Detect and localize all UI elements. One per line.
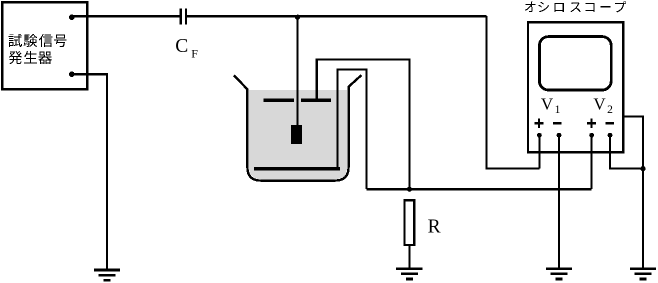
terminal dot V1+ [537, 133, 542, 138]
wire: V1- down to ground [558, 135, 560, 268]
svg-text:1: 1 [555, 104, 561, 116]
ground below generator [94, 270, 120, 280]
svg-text:C: C [175, 36, 188, 57]
ground below resistor [396, 269, 422, 279]
text 試験信号 char 信 [39, 34, 53, 47]
wire: generator bottom output right then down to ground [72, 74, 107, 270]
wire: V2- down and right to case branch [610, 135, 643, 168]
terminal dot V1- [557, 133, 562, 138]
wire: bottom electrode up over beaker rim down to bus [338, 69, 367, 189]
text 発生器 char 器 [38, 52, 52, 65]
ground below right branch [630, 269, 656, 279]
text 発生器 char 生 [24, 51, 37, 64]
text オシロスコープ char オ [525, 2, 536, 13]
text オシロスコープ char ロ [555, 3, 564, 12]
oscilloscope title オシロスコープ [525, 1, 626, 12]
terminal dot: generator output bottom [69, 71, 75, 77]
svg-text:V: V [541, 94, 554, 113]
oscilloscope box [528, 22, 623, 152]
wire: V1+ down to left branch [538, 135, 540, 168]
wire: bus from bottom-electrode branch to V2+ [366, 188, 591, 191]
svg-text:2: 2 [607, 104, 613, 116]
wire: capacitor to oscilloscope branch [187, 15, 487, 17]
wire: top electrode up and over to resistor branch [317, 60, 410, 188]
terminal dot: generator output top [69, 14, 75, 20]
wire: oscilloscope case to right branch down to ground [623, 117, 643, 269]
capacitor CF [180, 8, 188, 24]
text オシロスコープ char ス [570, 3, 580, 13]
inner electrode block [291, 125, 302, 144]
terminal dot V2+ [589, 133, 594, 138]
wire: node A down to inner electrode [297, 16, 299, 128]
bottom electrode plate [254, 167, 340, 171]
signal generator box U1 [2, 2, 87, 89]
svg-text:R: R [428, 216, 441, 237]
text オシロスコープ char シ [539, 2, 550, 12]
minus sign V1- [553, 122, 562, 124]
text 試験信号 char 験 [24, 34, 38, 47]
beaker outline [234, 75, 362, 181]
minus sign V2- [606, 122, 615, 124]
wire: resistor to ground [408, 246, 410, 269]
oscilloscope screen [539, 37, 611, 90]
wire: top wire down the left of oscilloscope to V1+ [487, 16, 540, 168]
svg-text:V: V [593, 94, 606, 113]
beaker liquid (electrolyte) [249, 90, 347, 179]
resistor R [405, 200, 415, 245]
text 試験信号 char 号 [54, 34, 67, 47]
junction node C on right branch [640, 166, 645, 171]
plus sign V2+ [587, 119, 596, 128]
text 発生器 char 発 [9, 51, 23, 64]
junction node B at resistor top [407, 187, 412, 192]
plus sign V1+ [534, 119, 543, 128]
text オシロスコープ char ー [600, 6, 610, 7]
text オシロスコープ char コ [586, 3, 595, 12]
wire: V2+ down to bus [590, 135, 592, 189]
electrode plate left (guard) [264, 99, 294, 102]
text オシロスコープ char プ [615, 1, 626, 12]
text 試験信号 char 試 [9, 34, 22, 47]
electrode plate right (top electrode) [301, 99, 331, 102]
junction node A on top wire [295, 15, 300, 20]
ground below V1- [546, 269, 572, 279]
svg-text:F: F [191, 46, 198, 60]
wire: generator top output to capacitor [72, 15, 180, 17]
terminal dot V2- [608, 133, 613, 138]
